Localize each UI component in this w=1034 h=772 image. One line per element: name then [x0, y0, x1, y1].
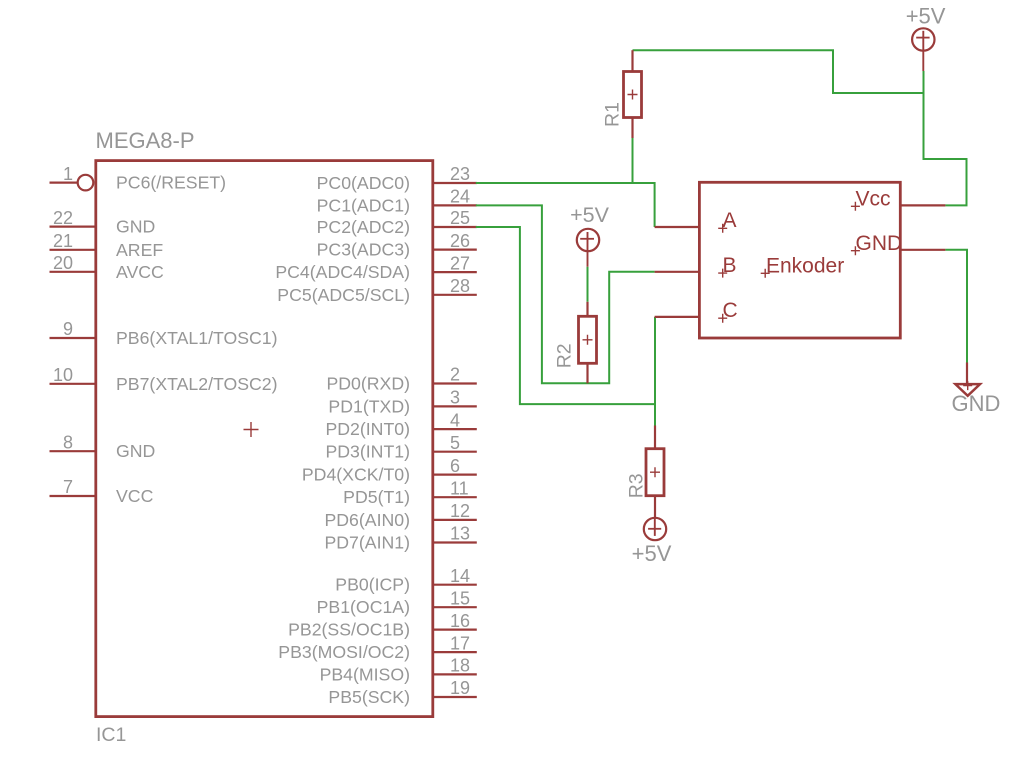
ground symbol GND: [955, 363, 980, 396]
svg-text:R3: R3: [626, 473, 648, 498]
svg-text:3: 3: [450, 388, 460, 408]
svg-text:PC1(ADC1): PC1(ADC1): [317, 195, 410, 215]
svg-text:PD2(INT0): PD2(INT0): [325, 419, 410, 439]
wire R2 top to +5V supply: [587, 267, 589, 302]
wire R1 bottom to net PC0: [632, 138, 634, 183]
encoder pin B: [655, 254, 737, 278]
svg-text:PC6(/RESET): PC6(/RESET): [116, 173, 226, 193]
encoder label origin cross: [761, 269, 770, 278]
IC IC1 MEGA8-P body: [96, 161, 433, 717]
svg-text:1: 1: [63, 164, 73, 184]
encoder pin C: [655, 299, 738, 323]
svg-text:24: 24: [450, 187, 470, 207]
resistor R2: [579, 302, 597, 384]
svg-text:26: 26: [450, 231, 470, 251]
IC1 pin 9 (PB6(XTAL1/TOSC1)): [50, 319, 278, 348]
svg-text:21: 21: [53, 231, 73, 251]
IC1 pin 1 (PC6(/RESET)): [50, 164, 227, 193]
IC1 pin 18 (PB4(MISO)): [320, 656, 477, 685]
encoder pin A: [655, 209, 737, 233]
svg-text:PB6(XTAL1/TOSC1): PB6(XTAL1/TOSC1): [116, 328, 278, 348]
svg-text:Enkoder: Enkoder: [766, 255, 844, 278]
IC1 pin 6 (PD4(XCK/T0)): [302, 456, 477, 485]
IC1 pin 24 (PC1(ADC1)): [317, 187, 477, 216]
svg-text:GND: GND: [116, 217, 155, 237]
svg-text:5: 5: [450, 433, 460, 453]
IC1 pin 17 (PB3(MOSI/OC2)): [278, 633, 477, 662]
IC1 pin 20 (AVCC): [50, 253, 165, 282]
IC1 pin 25 (PC2(ADC2)): [317, 208, 477, 237]
wire net +5V: supply symbol down to encoder Vcc: [924, 71, 967, 205]
svg-text:PD5(T1): PD5(T1): [343, 487, 410, 507]
IC1 pin 23 (PC0(ADC0)): [317, 164, 477, 193]
svg-text:+5V: +5V: [632, 541, 672, 566]
svg-text:PC2(ADC2): PC2(ADC2): [317, 217, 410, 237]
svg-text:GND: GND: [856, 232, 903, 255]
wire net PC1: IC1 pin 24 to R2 bottom and encoder pin B: [476, 205, 655, 383]
svg-text:4: 4: [450, 410, 460, 430]
svg-text:25: 25: [450, 208, 470, 228]
IC1 pin 12 (PD6(AIN0)): [324, 501, 476, 530]
svg-text:MEGA8-P: MEGA8-P: [96, 128, 195, 153]
svg-text:9: 9: [63, 319, 73, 339]
IC1 pin 5 (PD3(INT1)): [325, 433, 476, 462]
svg-text:PD7(AIN1): PD7(AIN1): [324, 533, 410, 553]
IC1 pin 28 (PC5(ADC5/SCL)): [277, 276, 477, 305]
svg-text:2: 2: [450, 365, 460, 385]
svg-text:PB0(ICP): PB0(ICP): [335, 575, 410, 595]
svg-text:6: 6: [450, 456, 460, 476]
svg-text:PD1(TXD): PD1(TXD): [328, 396, 410, 416]
svg-text:20: 20: [53, 253, 73, 273]
supply +5V symbol (below R3): [644, 518, 666, 541]
svg-text:PC5(ADC5/SCL): PC5(ADC5/SCL): [277, 285, 410, 305]
svg-text:GND: GND: [952, 391, 1001, 416]
svg-text:+5V: +5V: [906, 3, 946, 28]
svg-text:VCC: VCC: [116, 486, 154, 506]
svg-text:PB3(MOSI/OC2): PB3(MOSI/OC2): [278, 642, 410, 662]
IC1 pin 11 (PD5(T1)): [343, 478, 477, 507]
encoder box Enkoder: [699, 182, 900, 338]
wire net PC0: IC1 pin 23 to encoder pin A: [476, 183, 655, 227]
svg-text:R2: R2: [554, 343, 576, 368]
IC1 pin 22 (GND): [50, 208, 156, 237]
IC1 pin 14 (PB0(ICP)): [335, 566, 477, 595]
IC1 pin 26 (PC3(ADC3)): [317, 231, 477, 260]
wire net GND: encoder GND pin to ground symbol: [945, 250, 967, 363]
svg-text:PD4(XCK/T0): PD4(XCK/T0): [302, 465, 410, 485]
IC1 origin cross: [244, 422, 259, 437]
IC1 pin 2 (PD0(RXD)): [326, 365, 476, 394]
svg-text:PD0(RXD): PD0(RXD): [326, 374, 410, 394]
svg-text:PB5(SCK): PB5(SCK): [328, 687, 410, 707]
svg-text:AREF: AREF: [116, 240, 163, 260]
IC1 pin 13 (PD7(AIN1)): [324, 524, 476, 553]
svg-text:18: 18: [450, 656, 470, 676]
svg-text:16: 16: [450, 611, 470, 631]
svg-text:PB4(MISO): PB4(MISO): [320, 664, 410, 684]
IC1 pin 21 (AREF): [50, 231, 164, 260]
supply +5V symbol (above R2): [577, 229, 599, 267]
wire net +5V: R1 top to +5V rail: [633, 50, 924, 93]
svg-text:Vcc: Vcc: [856, 187, 891, 210]
svg-text:PB1(OC1A): PB1(OC1A): [317, 597, 410, 617]
IC1 pin 19 (PB5(SCK)): [328, 678, 476, 707]
svg-text:11: 11: [450, 478, 469, 498]
encoder pin GND: [851, 232, 946, 255]
svg-text:PC4(ADC4/SDA): PC4(ADC4/SDA): [275, 262, 410, 282]
svg-text:14: 14: [450, 566, 470, 586]
IC1 pin 27 (PC4(ADC4/SDA)): [275, 253, 476, 282]
resistor R1: [624, 50, 642, 138]
svg-text:17: 17: [450, 633, 470, 653]
IC1 pin 4 (PD2(INT0)): [325, 410, 476, 439]
IC1 pin 3 (PD1(TXD)): [328, 388, 476, 417]
svg-text:28: 28: [450, 276, 470, 296]
svg-text:22: 22: [53, 208, 73, 228]
resistor R3: [646, 426, 664, 518]
svg-text:19: 19: [450, 678, 470, 698]
svg-text:IC1: IC1: [96, 724, 126, 746]
encoder pin Vcc: [851, 187, 946, 210]
svg-text:+5V: +5V: [570, 203, 610, 227]
svg-text:PD3(INT1): PD3(INT1): [325, 442, 410, 462]
IC1 pin 16 (PB2(SS/OC1B)): [288, 611, 477, 640]
svg-text:23: 23: [450, 164, 470, 184]
svg-text:R1: R1: [602, 102, 624, 127]
svg-text:13: 13: [450, 524, 470, 544]
svg-text:PD6(AIN0): PD6(AIN0): [324, 510, 410, 530]
svg-text:PC3(ADC3): PC3(ADC3): [317, 240, 410, 260]
svg-text:AVCC: AVCC: [116, 262, 164, 282]
IC1 pin 7 (VCC): [50, 477, 154, 506]
svg-text:7: 7: [63, 477, 73, 497]
svg-text:12: 12: [450, 501, 470, 521]
wire net PC2 vertical: encoder pin C down to R3 top: [654, 317, 656, 426]
IC1 pin 8 (GND): [50, 432, 156, 461]
svg-text:10: 10: [53, 365, 73, 385]
svg-text:GND: GND: [116, 441, 155, 461]
wire net PC2: IC1 pin 25 to node below C: [476, 227, 655, 404]
IC1 pin 10 (PB7(XTAL2/TOSC2)): [50, 365, 278, 394]
svg-text:PB2(SS/OC1B): PB2(SS/OC1B): [288, 620, 410, 640]
svg-text:27: 27: [450, 253, 470, 273]
svg-text:PC0(ADC0): PC0(ADC0): [317, 173, 410, 193]
supply +5V symbol (top right): [912, 28, 934, 71]
svg-text:8: 8: [63, 432, 73, 452]
IC1 pin 15 (PB1(OC1A)): [317, 588, 477, 617]
pin 1 inversion circle: [78, 175, 94, 191]
svg-text:PB7(XTAL2/TOSC2): PB7(XTAL2/TOSC2): [116, 374, 278, 394]
svg-text:15: 15: [450, 588, 470, 608]
